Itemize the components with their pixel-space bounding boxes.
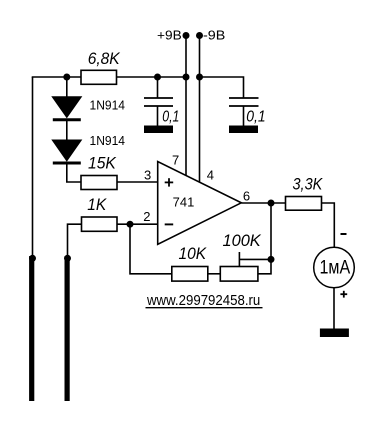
wire -9V vertical to pin 4 (199, 36, 201, 184)
potentiometer wiper stub (238, 252, 240, 267)
node right probe junction (64, 255, 71, 262)
node +9V terminal (183, 32, 190, 39)
capacitor C2 0,1 (229, 98, 259, 126)
svg-text:1N914: 1N914 (90, 133, 126, 148)
meter PA1 1mA (314, 247, 355, 288)
svg-text:100K: 100K (223, 231, 262, 250)
svg-text:2: 2 (143, 209, 150, 224)
label website underline (146, 307, 263, 309)
wire top bus middle segment (117, 76, 187, 78)
wire meter to ground (333, 288, 335, 329)
resistor R5 10K (172, 267, 208, 282)
wire 1K left lead and vertical to probe (68, 224, 82, 258)
svg-text:6,8K: 6,8K (88, 49, 121, 68)
wire R3 to pin 2 (117, 223, 158, 225)
svg-text:6: 6 (243, 188, 250, 203)
resistor R3 1K (82, 217, 118, 231)
node left probe junction (29, 255, 36, 262)
diode VD2 1N914 (53, 140, 81, 163)
op-amp plus input sign (165, 178, 174, 186)
svg-text:741: 741 (173, 196, 195, 210)
ground below C2 (229, 126, 258, 134)
svg-text:3: 3 (144, 168, 151, 183)
svg-text:1мА: 1мА (320, 256, 351, 278)
resistor R1 6,8K (81, 70, 117, 84)
node output junction (268, 200, 275, 207)
wire output pin 6 (241, 202, 285, 204)
resistor R4 3,3K (286, 197, 322, 211)
wire pot right terminal up to node (258, 259, 271, 273)
diode VD1 1N914 (53, 77, 81, 120)
svg-text:+9В: +9В (157, 28, 182, 43)
svg-text:www.299792458.ru: www.299792458.ru (146, 292, 260, 309)
probe electrode left (29, 256, 34, 401)
node feedback junction (268, 256, 275, 263)
wire left vertical rail (32, 77, 34, 258)
svg-text:15K: 15K (88, 153, 116, 172)
svg-text:0,1: 0,1 (246, 109, 265, 126)
node -9V bus junction (196, 74, 203, 81)
svg-text:1N914: 1N914 (90, 98, 126, 113)
node +9V bus junction (183, 74, 190, 81)
node -9V terminal (196, 32, 203, 39)
wire feedback vertical from pin2 node (130, 224, 172, 274)
wire R2 to pin 3 (117, 181, 158, 183)
node left capacitor junction (154, 74, 161, 81)
wire top bus right segment to C2 (200, 77, 244, 98)
label minus near meter (341, 233, 347, 235)
potentiometer R6 100K body (220, 267, 258, 282)
svg-text:10K: 10K (179, 244, 207, 263)
wire R5 to R6 (208, 273, 221, 275)
wire +9V vertical to pin 7 (185, 36, 187, 177)
op-amp minus input sign (165, 223, 174, 225)
wire diode chain to R2 (67, 163, 81, 182)
svg-text:3,3K: 3,3K (293, 175, 323, 194)
svg-text:4: 4 (207, 167, 214, 182)
wire output node down (270, 203, 272, 259)
svg-text:7: 7 (172, 153, 179, 168)
op-amp U1 741 triangle (158, 162, 242, 245)
capacitor C1 0,1 (144, 77, 173, 126)
node diode-chain top junction (63, 74, 70, 81)
probe electrode right (65, 256, 70, 401)
ground below meter (320, 329, 349, 338)
wire top bus left segment (32, 76, 81, 78)
svg-text:0,1: 0,1 (162, 109, 179, 126)
node inverting input junction (127, 221, 134, 228)
ground below C1 (144, 126, 173, 134)
resistor R2 15K (81, 176, 117, 190)
label plus near meter (340, 291, 347, 298)
wire between diodes (66, 120, 68, 141)
wire R4 to meter (322, 203, 335, 247)
wire wiper to output node (239, 258, 271, 260)
svg-text:1K: 1K (87, 195, 107, 214)
svg-text:-9В: -9В (203, 28, 225, 43)
